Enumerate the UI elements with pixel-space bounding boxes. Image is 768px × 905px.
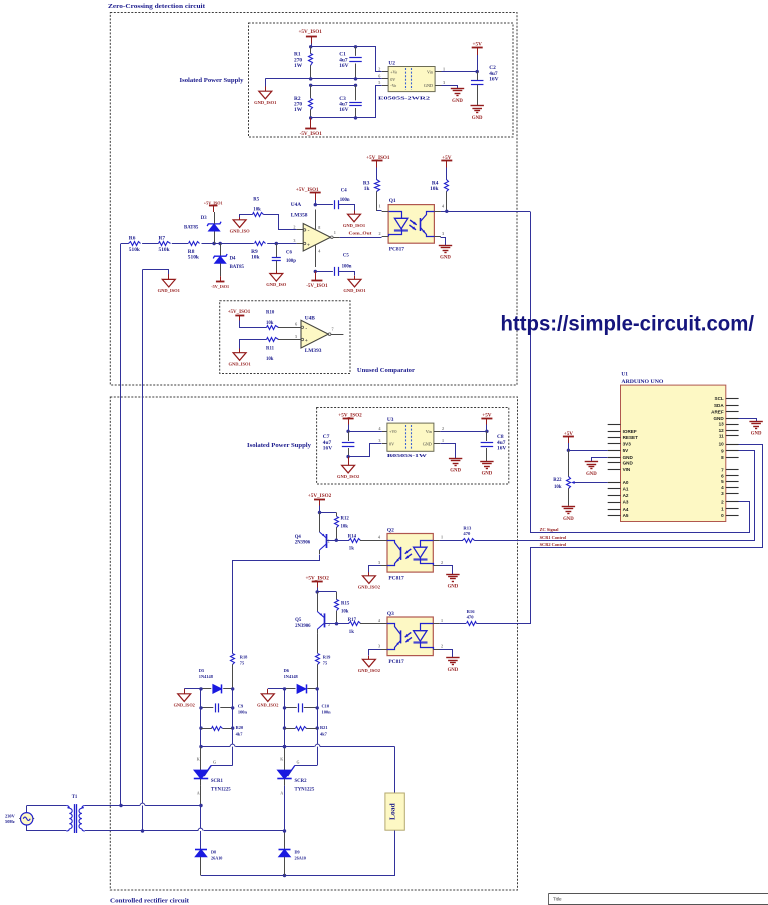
svg-text:100n: 100n xyxy=(322,710,332,715)
svg-text:GND_ISO1: GND_ISO1 xyxy=(158,288,181,293)
section box: Unused Comparator xyxy=(220,301,350,374)
wire D5 anode to GND_ISO2 xyxy=(184,688,201,690)
svg-text:G: G xyxy=(297,760,300,764)
svg-text:13: 13 xyxy=(719,422,725,427)
capacitor C7 4u7 16V xyxy=(323,431,355,456)
node C6 top xyxy=(275,242,278,245)
svg-text:26A10: 26A10 xyxy=(211,856,222,861)
ground GND (Arduino right) xyxy=(749,421,762,423)
svg-text:G: G xyxy=(213,760,216,764)
load box xyxy=(385,793,404,830)
svg-text:GND_ISO2: GND_ISO2 xyxy=(358,584,381,589)
node R20 right xyxy=(231,726,234,729)
node Q5 emitter rail xyxy=(316,590,319,593)
svg-text:A4: A4 xyxy=(623,507,629,512)
wire SCR2 anode to AC2 xyxy=(284,786,286,831)
diode D4 BAT85 xyxy=(213,244,244,277)
svg-text:3: 3 xyxy=(442,231,444,236)
svg-text:A0: A0 xyxy=(623,480,629,485)
svg-text:5: 5 xyxy=(295,334,297,339)
wire +5V to Arduino 5V pin xyxy=(568,450,607,452)
transformer T1 xyxy=(66,795,85,833)
node 0V at R1 xyxy=(309,77,312,80)
opto Q1 pin numbers xyxy=(379,203,445,236)
svg-text:0V: 0V xyxy=(389,441,394,446)
svg-text:GND: GND xyxy=(623,455,634,460)
svg-text:https://simple-circuit.com/: https://simple-circuit.com/ xyxy=(501,313,755,336)
svg-text:-Vo: -Vo xyxy=(390,83,396,88)
wire Arduino GND pin to ground xyxy=(739,419,757,422)
svg-text:-5V_ISO1: -5V_ISO1 xyxy=(211,284,229,289)
svg-text:+: + xyxy=(305,338,308,344)
resistor R7 510k xyxy=(158,236,171,253)
optocoupler Q2 PC817 body xyxy=(381,534,440,573)
wire U2 GND to ground xyxy=(442,86,458,89)
wire R11 to U4B pin5 xyxy=(278,339,301,341)
wire common cathode bus to load xyxy=(201,744,395,746)
resistor R16 470 xyxy=(440,609,477,626)
ground GND (Q1) xyxy=(439,245,452,247)
wire GND_ISO1 ref corner xyxy=(143,270,169,275)
node top rail at C1 xyxy=(354,45,357,48)
wire D6 anode to GND_ISO2 xyxy=(268,688,285,690)
svg-text:R17: R17 xyxy=(348,618,357,623)
wire +5V_ISO1 to R10 xyxy=(240,321,267,328)
wire R10 to U4B pin6 xyxy=(278,327,301,329)
transistor Q5 2N3906 xyxy=(317,592,324,634)
power +5V_ISO2 (supply B) xyxy=(338,413,362,425)
svg-text:9: 9 xyxy=(721,449,724,454)
svg-text:+Vo: +Vo xyxy=(390,70,397,75)
wire U2 -Vo to bottom rail xyxy=(356,86,382,118)
svg-text:R22: R22 xyxy=(553,478,562,483)
svg-text:10k: 10k xyxy=(251,255,259,261)
resistor R2 270 1W xyxy=(294,85,313,118)
wire SCR1 gate column xyxy=(201,689,233,776)
wire R17 to Q3 pin4 xyxy=(360,623,381,625)
svg-text:-5V_ISO1: -5V_ISO1 xyxy=(300,131,323,137)
ground GND_ISO1 (unused comparator) xyxy=(233,353,246,361)
resistor R13 470 xyxy=(440,526,475,543)
svg-text:4: 4 xyxy=(721,485,724,490)
svg-text:1N4148: 1N4148 xyxy=(284,674,299,679)
ground GND (C2) xyxy=(471,105,484,107)
SCR SCR2 TYN1225 xyxy=(277,747,299,796)
svg-text:100n: 100n xyxy=(340,198,350,203)
svg-text:RESET: RESET xyxy=(623,435,639,440)
svg-text:100p: 100p xyxy=(286,259,296,264)
capacitor C1 4u7 16V xyxy=(339,47,362,79)
wire ZC signal vertical to Arduino xyxy=(531,212,750,533)
resistor R20 4k7 xyxy=(212,725,244,736)
ground GND_ISO2 (SCR1 gate) xyxy=(178,694,191,702)
wire R5 right to op-amp pin2 xyxy=(264,215,297,230)
svg-text:1: 1 xyxy=(441,618,443,623)
svg-text:100n: 100n xyxy=(238,710,248,715)
svg-text:230V: 230V xyxy=(5,813,16,818)
svg-text:7: 7 xyxy=(332,326,334,331)
wire Q2 pin3 to GND_ISO2 xyxy=(369,566,381,573)
power +5V_ISO1 (R10) xyxy=(228,310,251,320)
svg-text:6: 6 xyxy=(295,322,297,327)
opto Q2 pin numbers xyxy=(378,535,443,566)
svg-text:16V: 16V xyxy=(497,446,506,452)
resistor R5 10k xyxy=(253,198,264,217)
diode D5 1N4148 xyxy=(199,668,233,694)
node Q4 emitter rail xyxy=(318,511,321,514)
svg-text:+V0: +V0 xyxy=(389,429,396,434)
ground GND (U3 pin1) xyxy=(449,458,462,460)
resistor R9 10k xyxy=(251,240,267,261)
diode D6 1N4148 xyxy=(284,668,318,694)
svg-text:GND_ISO2: GND_ISO2 xyxy=(358,668,381,673)
svg-text:6: 6 xyxy=(378,74,380,79)
Arduino left pins xyxy=(608,425,638,518)
svg-text:R15: R15 xyxy=(341,601,350,606)
potentiometer R22 10k xyxy=(553,450,574,505)
svg-text:LM393: LM393 xyxy=(305,348,322,354)
svg-text:3: 3 xyxy=(378,438,380,443)
svg-text:C10: C10 xyxy=(322,703,330,708)
svg-text:A2: A2 xyxy=(623,493,629,498)
svg-text:7: 7 xyxy=(721,468,724,473)
power -5V_ISO1 (below D4) xyxy=(211,276,229,289)
node return bus at D9 xyxy=(283,874,286,877)
svg-text:11: 11 xyxy=(719,433,724,438)
wire Q3 pin3 to GND_ISO2 xyxy=(369,650,381,656)
svg-text:10: 10 xyxy=(719,442,725,447)
svg-text:-: - xyxy=(308,228,310,234)
svg-text:GND: GND xyxy=(563,517,574,522)
wire R5 left to GND_ISO xyxy=(240,215,253,218)
wire U3 GND to ground xyxy=(441,444,456,459)
svg-text:2N3906: 2N3906 xyxy=(295,541,311,546)
SCR SCR1 TYN1225 xyxy=(194,747,216,796)
svg-text:D8: D8 xyxy=(211,850,216,855)
capacitor C8 4u7 16V xyxy=(481,431,507,461)
svg-text:R18: R18 xyxy=(240,654,248,659)
svg-text:D9: D9 xyxy=(295,850,300,855)
power +5V (R22) xyxy=(563,431,574,451)
DC-DC converter U3 B0505S-1W xyxy=(378,417,444,458)
node op-amp pin4 / C5 xyxy=(314,270,317,273)
svg-text:10k: 10k xyxy=(554,485,562,490)
svg-text:16V: 16V xyxy=(339,63,348,69)
wire Q1 pin4 to ZC vertical xyxy=(441,211,530,213)
svg-text:1k: 1k xyxy=(364,186,370,192)
svg-text:GND_ISO2: GND_ISO2 xyxy=(174,702,195,707)
wire C6 to GND_ISO xyxy=(276,271,278,274)
wire load bottom to return bus xyxy=(285,831,395,876)
node C10 left xyxy=(283,706,286,709)
resistor R14 1k xyxy=(348,534,361,551)
svg-text:GND: GND xyxy=(450,469,461,474)
power +5V_ISO1 (op-amp pin8) xyxy=(296,188,321,205)
svg-text:0: 0 xyxy=(721,513,724,518)
ground GND_ISO1 (C4) xyxy=(348,214,361,222)
svg-text:1k: 1k xyxy=(349,630,354,635)
resistor R18 75 xyxy=(231,654,249,689)
svg-text:GND_ISO: GND_ISO xyxy=(230,228,251,233)
wire top rail to U2 +Vo xyxy=(356,47,382,72)
resistor R3 1k xyxy=(363,168,380,212)
power +5V_ISO2 (Q4) xyxy=(308,493,332,512)
wire comparator input row xyxy=(121,243,297,245)
resistor R10 10k xyxy=(266,311,279,330)
svg-text:ARDUINO UNO: ARDUINO UNO xyxy=(621,379,663,385)
svg-text:2: 2 xyxy=(378,66,380,71)
svg-text:PC817: PC817 xyxy=(388,659,404,665)
svg-text:PC817: PC817 xyxy=(388,576,404,582)
wire R11 left to GND_ISO1 xyxy=(240,340,267,349)
svg-text:Title: Title xyxy=(553,896,562,901)
wire +5V_ISO2 to U3 +V0 xyxy=(348,425,350,432)
svg-text:1: 1 xyxy=(379,203,381,208)
svg-text:A: A xyxy=(280,792,283,796)
svg-text:GND: GND xyxy=(448,585,459,590)
svg-text:D5: D5 xyxy=(199,668,205,673)
power +5V (supply A) xyxy=(472,42,483,55)
svg-text:Unused Comparator: Unused Comparator xyxy=(357,367,415,374)
svg-text:K: K xyxy=(280,758,283,762)
svg-text:GND: GND xyxy=(751,432,762,437)
node bottom rail at C3 xyxy=(354,116,357,119)
ground GND (U2 pin3) xyxy=(451,88,464,90)
node D6 anode xyxy=(283,687,286,690)
wire load top drop xyxy=(394,747,396,793)
ground GND_ISO (C6) xyxy=(270,274,283,282)
ground GND (Arduino left) xyxy=(585,461,598,463)
optocoupler Q3 PC817 body xyxy=(381,617,440,656)
svg-text:LM358: LM358 xyxy=(291,212,308,218)
ground GND_ISO (R5) xyxy=(233,220,246,228)
svg-text:1: 1 xyxy=(441,535,443,540)
svg-text:Com_Out: Com_Out xyxy=(349,231,373,236)
power +5V_ISO2 (Q5) xyxy=(305,576,329,592)
SCR1 labels xyxy=(211,779,231,793)
ground GND_ISO2 (supply B) xyxy=(342,465,355,473)
wire Q5 base junction xyxy=(324,623,349,625)
wire Arduino GND left pin to ground xyxy=(592,458,608,462)
svg-text:A3: A3 xyxy=(623,500,629,505)
wire return bus to D8 xyxy=(201,875,285,877)
resistor R1 270 1W xyxy=(294,47,313,79)
wire +5V down to Vin node xyxy=(477,55,479,72)
ground GND_ISO1 (supply A) xyxy=(259,91,272,99)
wire SCR1 anode through AC1 to D8 xyxy=(200,806,202,850)
ground GND_ISO2 (SCR2 gate) xyxy=(261,694,274,702)
wire SCR1 anode to AC1 xyxy=(200,786,202,806)
svg-text:10k: 10k xyxy=(266,357,274,362)
svg-text:VIN: VIN xyxy=(623,467,631,472)
node SCR2 cathode bus xyxy=(283,745,286,748)
power +5V (supply B) xyxy=(481,413,492,432)
svg-text:-5V_ISO1: -5V_ISO1 xyxy=(306,284,328,289)
svg-text:R14: R14 xyxy=(348,534,357,539)
svg-text:Zero-Crossing detection circui: Zero-Crossing detection circuit xyxy=(108,3,206,10)
wire second mid rail R2top-C3top xyxy=(311,85,356,87)
resistor R12 10k xyxy=(335,513,350,541)
section box: Isolated Power Supply (bottom) xyxy=(317,408,509,485)
svg-text:1W: 1W xyxy=(294,63,303,69)
node R20 left xyxy=(199,726,202,729)
optocoupler Q1 PC817 body xyxy=(382,205,441,244)
svg-text:Q3: Q3 xyxy=(387,611,394,617)
AC source V1 230V 50Hz xyxy=(5,806,34,832)
svg-text:Vin: Vin xyxy=(426,429,433,434)
wire +5V_ISO2 rail to R15 xyxy=(317,591,336,593)
wire GND_ISO1 drop (supply A) xyxy=(265,79,267,87)
node SCR2 cathode xyxy=(283,745,286,748)
node D4 cathode xyxy=(219,242,222,245)
wire Q2 pin2 to GND xyxy=(440,566,453,575)
svg-text:+5V_ISO1: +5V_ISO1 xyxy=(228,310,251,315)
IC U1 ARDUINO UNO body xyxy=(621,385,726,521)
svg-text:R5: R5 xyxy=(253,198,259,203)
svg-text:SCR2 Control: SCR2 Control xyxy=(540,542,567,547)
svg-text:Vin: Vin xyxy=(427,70,434,75)
svg-text:SCR1: SCR1 xyxy=(211,779,224,784)
svg-text:16V: 16V xyxy=(339,107,348,113)
svg-text:TYN1225: TYN1225 xyxy=(295,788,315,793)
diode D9 26A10 xyxy=(279,849,306,875)
svg-text:R7: R7 xyxy=(159,236,166,242)
node R21 left xyxy=(283,726,286,729)
svg-text:AREF: AREF xyxy=(711,410,724,415)
svg-text:TYN1225: TYN1225 xyxy=(211,788,231,793)
node C9 right xyxy=(231,706,234,709)
wire U3 0V to C7 bottom xyxy=(349,444,382,457)
svg-text:100n: 100n xyxy=(342,264,352,269)
svg-text:5: 5 xyxy=(378,80,380,85)
wire C7 to GND_ISO2 xyxy=(348,457,350,466)
section box: Isolated Power Supply (top) xyxy=(249,23,514,137)
svg-text:GND_ISO: GND_ISO xyxy=(266,282,287,287)
svg-text:GND: GND xyxy=(448,668,459,673)
svg-text:Controlled rectifier circuit: Controlled rectifier circuit xyxy=(110,897,190,904)
ground GND (R22) xyxy=(568,505,570,506)
wire SCR2 Control to Arduino pin10 xyxy=(477,445,763,624)
Arduino right pins xyxy=(711,396,738,518)
svg-text:D6: D6 xyxy=(284,668,290,673)
svg-text:GND_ISO2: GND_ISO2 xyxy=(257,702,278,707)
node AC2 at sense2 xyxy=(141,829,144,832)
svg-text:10k: 10k xyxy=(266,321,274,326)
Arduino U1 labels xyxy=(621,372,663,386)
svg-text:GND: GND xyxy=(472,116,483,121)
svg-text:GND_ISO1: GND_ISO1 xyxy=(343,288,366,293)
svg-text:SCR1 Control: SCR1 Control xyxy=(540,535,567,540)
ground GND_ISO1 (C5) xyxy=(348,279,361,287)
section box: Zero-Crossing detection circuit xyxy=(110,13,517,386)
resistor R11 10k xyxy=(266,338,279,362)
svg-text:1N4148: 1N4148 xyxy=(199,674,214,679)
svg-text:GND: GND xyxy=(586,472,597,477)
wire Q4 collector to R18 xyxy=(233,555,320,654)
node C9 left xyxy=(199,706,202,709)
wire SCR1 Control to Arduino pin9 xyxy=(475,451,755,541)
svg-text:U3: U3 xyxy=(387,417,394,423)
wire op-amp output Com_Out to Q1 pin2 xyxy=(340,237,382,239)
svg-text:R16: R16 xyxy=(467,609,476,614)
svg-text:3V3: 3V3 xyxy=(623,441,632,446)
ground GND_ISO2 (Q3) xyxy=(362,659,375,667)
svg-text:5V: 5V xyxy=(623,448,630,453)
svg-text:PC817: PC817 xyxy=(389,247,405,253)
svg-text:A5: A5 xyxy=(623,513,629,518)
ground GND (C8) xyxy=(480,461,493,463)
svg-text:R19: R19 xyxy=(323,654,331,659)
power +5V_ISO1 (R3) xyxy=(366,155,390,168)
svg-text:SDA: SDA xyxy=(714,403,724,408)
svg-text:GND_ISO1: GND_ISO1 xyxy=(343,223,366,228)
svg-text:Q5: Q5 xyxy=(295,618,302,623)
svg-text:B0505S-1W: B0505S-1W xyxy=(387,453,428,458)
title block xyxy=(549,893,768,905)
capacitor C9 100n xyxy=(201,703,247,714)
svg-text:U2: U2 xyxy=(388,60,395,66)
svg-text:R12: R12 xyxy=(341,517,350,522)
svg-text:3: 3 xyxy=(443,80,445,85)
wire Q1 pin3 to GND xyxy=(441,238,446,246)
op-amp U4A labels xyxy=(291,202,308,218)
svg-text:C9: C9 xyxy=(238,703,244,708)
svg-text:A: A xyxy=(197,792,200,796)
svg-text:BAT85: BAT85 xyxy=(230,265,245,270)
resistor R21 4k7 xyxy=(296,725,328,736)
wire top rail xyxy=(311,46,356,48)
op-amp U4B triangle xyxy=(301,320,328,348)
transistor Q5 labels xyxy=(295,618,330,629)
svg-text:GND_ISO2: GND_ISO2 xyxy=(337,474,360,479)
svg-text:Q1: Q1 xyxy=(389,198,396,204)
svg-text:GND: GND xyxy=(713,416,724,421)
section box: Controlled rectifier circuit xyxy=(110,397,517,890)
svg-text:6: 6 xyxy=(721,473,724,478)
svg-text:5: 5 xyxy=(721,479,724,484)
svg-text:12: 12 xyxy=(719,428,725,433)
svg-text:Q2: Q2 xyxy=(387,528,394,534)
svg-text:1W: 1W xyxy=(294,107,303,113)
svg-text:GND: GND xyxy=(623,461,634,466)
node C7 bottom xyxy=(346,455,349,458)
svg-text:GND_ISO1: GND_ISO1 xyxy=(254,100,277,105)
diode D8 26A10 xyxy=(195,849,222,875)
svg-text:R11: R11 xyxy=(266,346,275,351)
node +5V / R22 xyxy=(567,449,570,452)
node Q1 pin4 / R4 xyxy=(445,210,448,213)
svg-text:R21: R21 xyxy=(320,725,328,730)
svg-text:Load: Load xyxy=(388,802,397,820)
svg-text:C4: C4 xyxy=(341,188,347,193)
svg-text:26A10: 26A10 xyxy=(295,856,306,861)
svg-text:U4A: U4A xyxy=(291,202,302,208)
wire +5V_ISO2 rail to R12 xyxy=(320,512,337,514)
ground GND_ISO2 (Q2) xyxy=(362,576,375,584)
wire U2 Vin to +5V node xyxy=(442,71,478,73)
resistor R6 510k xyxy=(129,236,143,253)
capacitor C4 100n xyxy=(315,188,350,209)
svg-text:C6: C6 xyxy=(286,251,292,256)
svg-text:16V: 16V xyxy=(489,77,498,83)
svg-text:GND: GND xyxy=(440,256,451,261)
node 0V at C1 xyxy=(354,77,357,80)
svg-text:Isolated Power Supply: Isolated Power Supply xyxy=(180,77,245,84)
svg-text:K: K xyxy=(197,758,200,762)
node R21 right xyxy=(316,726,319,729)
node mid at R2 xyxy=(309,84,312,87)
wire C5 to GND_ISO1 xyxy=(339,272,355,276)
